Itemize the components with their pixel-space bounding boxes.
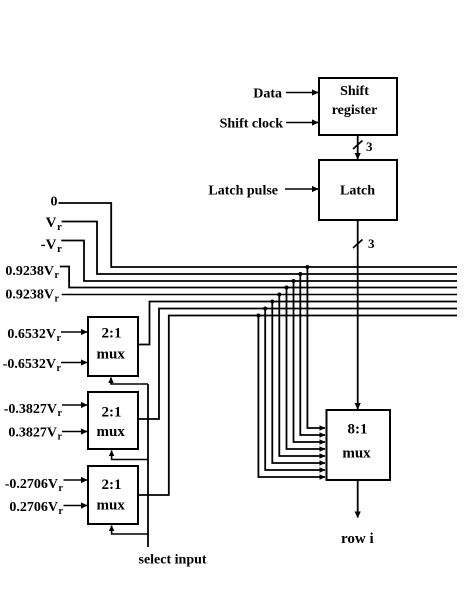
svg-text:2:1: 2:1 [102,405,122,421]
junction dot rail 7 tap [263,307,267,311]
svg-text:mux: mux [97,498,126,514]
svg-text:r: r [59,506,64,517]
wire: tap rail 2 to mux input 2 [300,274,325,435]
wire: tap rail 3 to mux input 3 [294,281,326,442]
wire: tap rail 8 to mux input 8 [258,316,325,478]
svg-text:r: r [55,270,60,281]
svg-text:-V: -V [41,237,57,253]
junction dot rail 4 tap [285,286,289,290]
wire: tap rail 4 to mux input 4 [287,288,326,450]
wire: tap rail 6 to mux input 6 [272,302,325,464]
svg-text:mux: mux [97,347,126,363]
junction dot rail 3 tap [292,279,296,283]
wire: shift register to latch (bus) [357,135,359,159]
wire: select branch to mux1 [111,378,148,385]
svg-text:r: r [57,363,62,374]
junction dot rail 1 tap [305,265,309,269]
svg-text:3: 3 [366,139,373,154]
wire: 0.3827Vr input arrow [62,431,87,433]
wire: latch to 8:1 mux select (bus) [357,220,359,409]
svg-text:mux: mux [97,424,126,440]
wire: 8:1 mux output row i [357,480,359,518]
wire: mux2 output to rail 7 [138,309,457,420]
wire: Shift clock input arrow [286,122,318,124]
junction dot rail 5 tap [277,293,281,297]
svg-text:Latch pulse: Latch pulse [208,184,278,199]
svg-text:2:1: 2:1 [102,477,122,493]
wire: mux3 output to rail 8 [138,316,457,496]
box: 2:1 mux (bottom) [88,466,138,524]
wire: 0.6532Vr input arrow [61,331,87,333]
wire: Latch pulse input arrow [285,188,318,190]
svg-text:r: r [57,221,62,233]
svg-text:select input: select input [139,553,207,568]
svg-text:Data: Data [253,87,282,102]
svg-text:row i: row i [341,531,374,547]
svg-text:r: r [58,408,63,419]
wire: 0.9238Vr rail (first) [60,267,457,288]
svg-text:0.2706V: 0.2706V [9,500,58,515]
svg-text:-0.3827V: -0.3827V [4,402,57,417]
wire: -0.6532Vr input arrow [61,362,87,364]
wire: mux1 output to rail 6 [138,302,457,345]
wire: 0 rail [59,203,458,267]
wire: select branch to mux2 [112,451,148,460]
wire: tap rail 1 to mux input 1 [307,267,325,428]
bus slash mark [353,141,363,150]
bus slash mark [353,240,363,249]
wire: -Vr rail [61,241,457,282]
svg-text:Shift: Shift [340,84,369,99]
svg-text:Latch: Latch [340,184,375,199]
wire: select input vertical [147,384,149,547]
wire: Data input arrow [286,92,318,94]
svg-text:0.3827V: 0.3827V [8,426,57,441]
box: 8:1 mux [327,410,391,480]
wire: Vr rail [62,222,457,275]
svg-text:r: r [55,294,60,305]
junction dot rail 8 tap [256,314,260,318]
wire: -0.2706Vr input arrow [64,479,88,481]
svg-text:0.6532V: 0.6532V [7,327,56,342]
svg-text:-0.6532V: -0.6532V [3,357,56,372]
box: latch [319,160,397,220]
svg-text:V: V [46,215,57,231]
svg-text:Shift clock: Shift clock [220,117,284,132]
svg-text:0: 0 [51,195,58,210]
wire: 0.2706Vr input arrow [64,505,88,507]
box: shift register [319,78,397,135]
svg-text:r: r [58,432,63,443]
svg-text:8:1: 8:1 [348,422,368,438]
wire: -0.3827Vr input arrow [62,404,87,406]
box: 2:1 mux (top) [88,317,138,376]
svg-text:2:1: 2:1 [102,326,122,342]
svg-text:0.9238V: 0.9238V [5,264,54,279]
svg-text:3: 3 [368,236,375,251]
svg-text:r: r [57,243,62,255]
wire: tap rail 7 to mux input 7 [265,309,325,471]
wire: tap rail 5 to mux input 5 [279,295,325,457]
svg-text:register: register [332,103,378,118]
wire: 0.9238Vr rail (second) [62,294,457,296]
svg-text:0.9238V: 0.9238V [5,288,54,303]
svg-text:mux: mux [342,446,371,462]
junction dot rail 2 tap [298,272,302,276]
wire: select branch to mux3 [112,526,148,535]
svg-text:-0.2706V: -0.2706V [5,477,58,492]
junction dot rail 6 tap [270,300,274,304]
svg-text:r: r [57,333,62,344]
box: 2:1 mux (middle) [88,392,138,449]
svg-text:r: r [59,483,64,494]
